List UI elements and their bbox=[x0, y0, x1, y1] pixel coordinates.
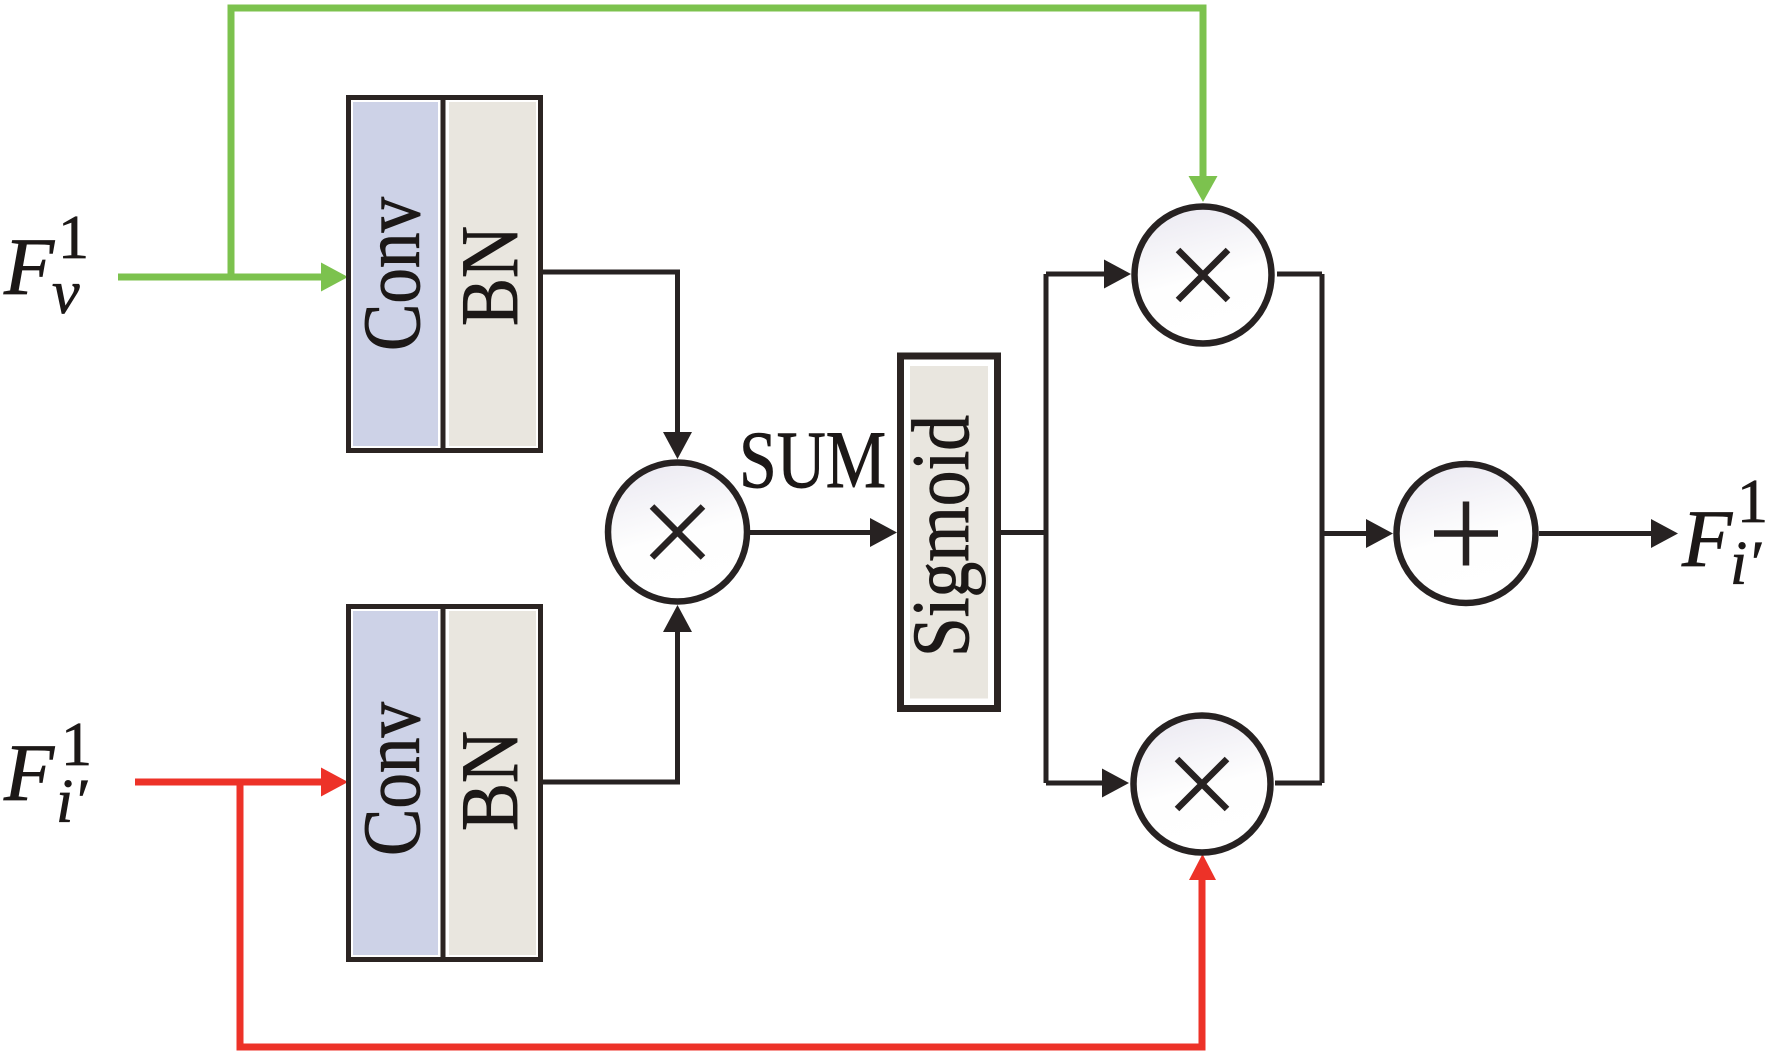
svg-text:i′: i′ bbox=[1730, 530, 1762, 598]
svg-text:F: F bbox=[1681, 493, 1733, 584]
svg-text:Sigmoid: Sigmoid bbox=[895, 415, 986, 657]
svg-text:SUM: SUM bbox=[739, 414, 886, 505]
svg-text:i′: i′ bbox=[56, 768, 88, 836]
svg-text:BN: BN bbox=[444, 731, 535, 831]
svg-text:Conv: Conv bbox=[346, 702, 437, 856]
svg-text:Conv: Conv bbox=[346, 197, 437, 351]
svg-text:v: v bbox=[52, 259, 80, 327]
svg-text:F: F bbox=[3, 221, 55, 312]
svg-text:1: 1 bbox=[1737, 468, 1765, 536]
svg-text:BN: BN bbox=[444, 226, 535, 326]
svg-text:F: F bbox=[3, 727, 55, 818]
